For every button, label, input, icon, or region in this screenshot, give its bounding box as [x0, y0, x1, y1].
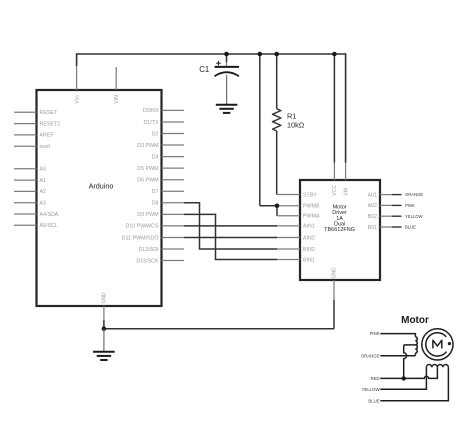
svg-text:BIN2: BIN2 — [303, 247, 315, 253]
svg-text:D5 PWM: D5 PWM — [137, 166, 158, 172]
svg-text:PWMA: PWMA — [303, 214, 320, 220]
svg-text:D4: D4 — [152, 154, 159, 160]
svg-text:PINK: PINK — [405, 203, 415, 208]
svg-text:A01: A01 — [368, 192, 377, 198]
svg-text:BIN1: BIN1 — [303, 257, 315, 263]
svg-text:PINK: PINK — [370, 331, 380, 336]
svg-text:D9 PWM: D9 PWM — [137, 212, 158, 218]
svg-text:Arduino: Arduino — [89, 181, 114, 190]
svg-text:D12/SDI: D12/SDI — [138, 247, 158, 253]
svg-text:YELLOW: YELLOW — [362, 387, 381, 392]
svg-text:B02: B02 — [368, 214, 377, 220]
svg-text:D1/TX: D1/TX — [143, 120, 158, 126]
svg-text:ORANGE: ORANGE — [405, 192, 423, 197]
svg-text:A0: A0 — [40, 167, 47, 173]
svg-text:10kΩ: 10kΩ — [287, 120, 305, 129]
svg-text:GND: GND — [332, 267, 338, 279]
svg-text:Vcc: Vcc — [74, 95, 80, 104]
svg-text:VCC: VCC — [332, 185, 338, 196]
svg-text:RED: RED — [371, 376, 380, 381]
svg-text:D0/RX: D0/RX — [143, 108, 159, 114]
svg-text:D3 PWM: D3 PWM — [137, 143, 158, 149]
svg-text:D6 PWM: D6 PWM — [137, 178, 158, 184]
svg-text:AIN2: AIN2 — [303, 235, 315, 241]
svg-text:A02: A02 — [368, 203, 377, 209]
svg-text:TB6612FNG: TB6612FNG — [324, 227, 355, 233]
svg-text:AIN1: AIN1 — [303, 224, 315, 230]
svg-text:ORANGE: ORANGE — [361, 353, 380, 358]
svg-text:D2: D2 — [152, 131, 159, 137]
svg-text:PWMB: PWMB — [303, 204, 320, 210]
svg-text:A2: A2 — [40, 189, 47, 195]
svg-text:VIN: VIN — [114, 95, 120, 104]
svg-text:GND: GND — [102, 292, 108, 304]
svg-text:YELLOW: YELLOW — [405, 214, 423, 219]
svg-text:A4/SDA: A4/SDA — [40, 212, 59, 218]
svg-text:B01: B01 — [368, 225, 377, 231]
svg-text:D11 PWM/SDO: D11 PWM/SDO — [122, 235, 159, 241]
svg-text:AREF: AREF — [40, 133, 55, 139]
svg-text:ioref: ioref — [40, 144, 51, 150]
svg-text:D8: D8 — [152, 201, 159, 207]
svg-text:A5/SCL: A5/SCL — [40, 223, 58, 229]
svg-text:D7: D7 — [152, 189, 159, 195]
svg-text:STBY: STBY — [303, 192, 317, 198]
svg-text:BLUE: BLUE — [405, 225, 416, 230]
svg-text:C1: C1 — [199, 65, 209, 74]
svg-text:VM: VM — [343, 188, 349, 196]
svg-text:RESET2: RESET2 — [40, 121, 61, 127]
svg-text:RESET: RESET — [40, 110, 58, 116]
svg-text:A3: A3 — [40, 201, 47, 207]
svg-text:D10 PWM/CS: D10 PWM/CS — [126, 224, 159, 230]
svg-text:A1: A1 — [40, 178, 47, 184]
svg-text:D13/SCK: D13/SCK — [136, 258, 159, 264]
svg-text:Motor: Motor — [401, 315, 429, 326]
svg-text:BLUE: BLUE — [368, 398, 379, 403]
svg-text:R1: R1 — [287, 112, 296, 121]
